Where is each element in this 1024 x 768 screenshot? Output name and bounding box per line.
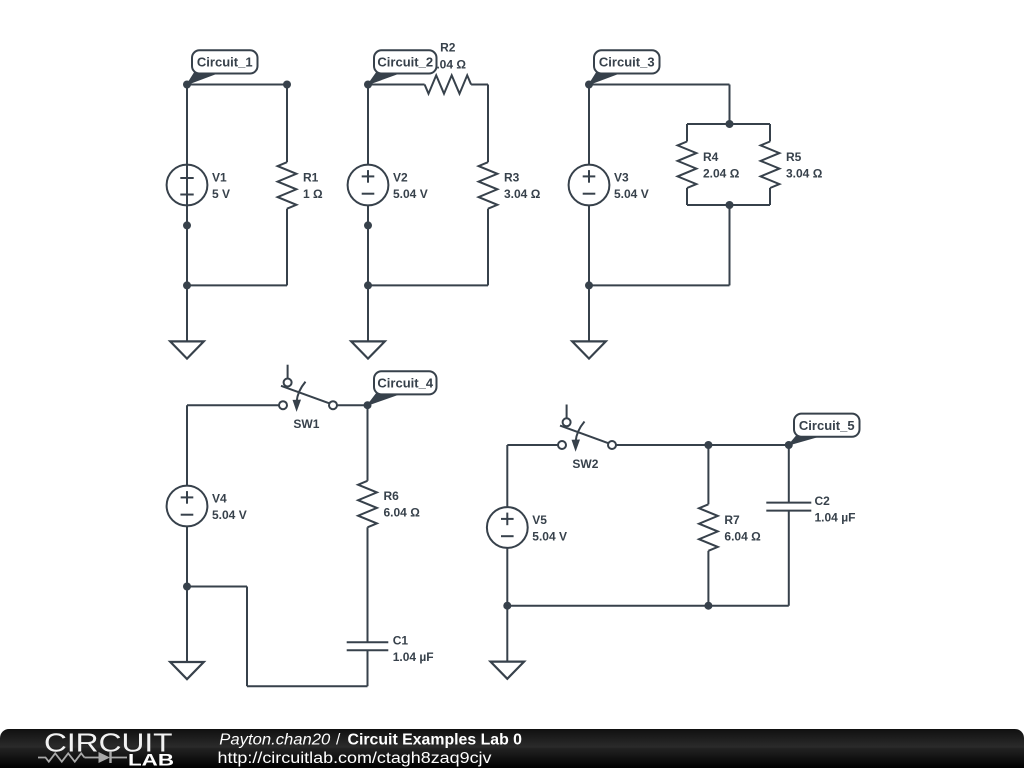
svg-text:V4: V4 (212, 491, 227, 505)
svg-text:2.04 Ω: 2.04 Ω (703, 166, 740, 180)
svg-text:R1: R1 (303, 170, 319, 184)
svg-text:Circuit Examples Lab 0: Circuit Examples Lab 0 (348, 732, 523, 749)
svg-text:R3: R3 (504, 170, 520, 184)
svg-text:R6: R6 (384, 489, 400, 503)
svg-text:Circuit_5: Circuit_5 (799, 418, 855, 433)
svg-text:C1: C1 (393, 634, 409, 648)
svg-text:3.04 Ω: 3.04 Ω (786, 166, 823, 180)
svg-text:V3: V3 (614, 170, 629, 184)
svg-text:5.04 V: 5.04 V (212, 508, 247, 522)
svg-text:V1: V1 (212, 170, 227, 184)
svg-text:1.04 µF: 1.04 µF (393, 650, 434, 664)
svg-text:5.04 V: 5.04 V (532, 529, 567, 543)
svg-text:SW2: SW2 (572, 457, 598, 471)
svg-text:Payton.chan20: Payton.chan20 (219, 732, 330, 749)
svg-text:5.04 V: 5.04 V (614, 187, 649, 201)
svg-text:V5: V5 (532, 513, 547, 527)
svg-text:1 Ω: 1 Ω (303, 187, 323, 201)
svg-text:5 V: 5 V (212, 187, 230, 201)
svg-text:Circuit_3: Circuit_3 (599, 55, 655, 70)
svg-text:/: / (336, 732, 341, 749)
svg-text:6.04 Ω: 6.04 Ω (724, 529, 761, 543)
svg-text:5.04 V: 5.04 V (393, 187, 428, 201)
svg-text:R4: R4 (703, 150, 719, 164)
svg-text:C2: C2 (815, 494, 831, 508)
svg-text:http://circuitlab.com/ctagh8za: http://circuitlab.com/ctagh8zaq9cjv (218, 750, 492, 767)
svg-text:6.04 Ω: 6.04 Ω (384, 506, 421, 520)
svg-text:3.04 Ω: 3.04 Ω (504, 187, 541, 201)
svg-text:Circuit_1: Circuit_1 (197, 55, 253, 70)
svg-text:V2: V2 (393, 170, 408, 184)
svg-text:Circuit_4: Circuit_4 (377, 376, 433, 391)
svg-text:R7: R7 (724, 513, 740, 527)
svg-text:R2: R2 (440, 41, 456, 55)
svg-text:SW1: SW1 (293, 417, 319, 431)
svg-text:LAB: LAB (128, 751, 174, 768)
svg-text:R5: R5 (786, 150, 802, 164)
svg-text:1.04 µF: 1.04 µF (815, 511, 856, 525)
svg-text:Circuit_2: Circuit_2 (377, 55, 433, 70)
